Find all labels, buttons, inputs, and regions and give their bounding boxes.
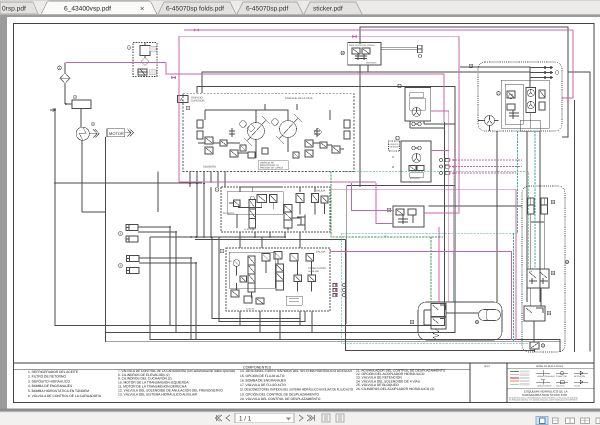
wire: magenta right drop — [562, 30, 573, 98]
svg-text:AUXILIAR: AUXILIAR — [308, 270, 319, 273]
wire: teal into coupler — [534, 131, 536, 269]
svg-text:5. BOMBA HIDROSTÁTICA EN TÁNDE: 5. BOMBA HIDROSTÁTICA EN TÁNDEM — [28, 389, 89, 393]
wire: brake valve down — [360, 65, 368, 187]
tab folds — [158, 2, 236, 14]
wire: pump feeder extensions — [158, 172, 211, 238]
wires down — [531, 214, 544, 269]
tandem hydrostatic pump 5 (dashed box) — [178, 94, 355, 172]
pump rotor left — [248, 123, 265, 140]
quick disconnects 14 (std aux) — [333, 284, 346, 297]
ride control block 19-21 (rounded, bottom middle) — [410, 302, 502, 340]
servo valve cluster right — [305, 140, 313, 157]
wire: mid verticals x527/x540 — [527, 131, 540, 302]
wire: loop under section B 2 — [219, 237, 305, 322]
servo valve cluster left — [205, 137, 213, 154]
green lines — [331, 171, 528, 302]
svg-text:LS: LS — [384, 235, 387, 238]
magenta arrows — [194, 29, 199, 32]
wire: bottom line y350.5 — [346, 240, 536, 351]
double line to connector — [381, 48, 418, 50]
svg-text:PRESIÓN DE CARGA: PRESIÓN DE CARGA — [260, 167, 283, 170]
svg-text:SALIDA: SALIDA — [316, 190, 325, 193]
gear pump P1 — [76, 127, 89, 140]
svg-text:6-45070sp folds.pdf: 6-45070sp folds.pdf — [166, 5, 224, 12]
wire: loop under section B — [212, 237, 300, 319]
wire: valve19 enclosure — [347, 186, 455, 325]
wire — [139, 263, 196, 340]
svg-text:×: × — [140, 4, 144, 13]
wire: valve19 to coupler — [429, 205, 522, 207]
reservoir tank — [72, 100, 91, 109]
return filter assembly 2 — [127, 43, 157, 77]
svg-text:CARGADORA SKID STEER 450T: CARGADORA SKID STEER 450T — [522, 393, 568, 397]
check valve 23 — [530, 342, 539, 349]
junction dots — [54, 103, 286, 264]
wire: magenta into ride control — [438, 227, 440, 304]
lift cylinders 8 — [119, 225, 138, 243]
wire: reservoir to pump — [80, 109, 82, 128]
wire: h y183 — [55, 182, 202, 184]
quick disconnects 18 (high flow) — [440, 159, 450, 175]
view mode icons — [536, 417, 548, 425]
svg-text:LÍNEAS CRUZADAS: LÍNEAS CRUZADAS — [537, 375, 555, 378]
svg-text:ENTRADA: ENTRADA — [223, 212, 235, 215]
wire: valve B drops to bottom lines — [240, 311, 312, 340]
svg-text:20. VÁLVULA DEL CONTROL DE DES: 20. VÁLVULA DEL CONTROL DE DESPLAZAMIENT… — [240, 397, 321, 401]
svg-text:SEÑALES REFLEJADAS: SEÑALES REFLEJADAS — [536, 364, 564, 368]
wire: left trunk vertical x55 — [55, 108, 445, 326]
svg-text:ORIFICIO: ORIFICIO — [390, 143, 399, 146]
solenoid valve 20 — [431, 304, 446, 317]
svg-text:15. OPCIÓN DE FLUJO ALTO: 15. OPCIÓN DE FLUJO ALTO — [240, 374, 285, 378]
svg-text:VÁLVULA: VÁLVULA — [556, 385, 565, 388]
wire: bottom line y341.8 — [106, 137, 561, 342]
svg-text:18. DESCONECTORES RÁPIDOS DEL: 18. DESCONECTORES RÁPIDOS DEL SISTEMA HI… — [240, 388, 353, 392]
svg-text:MOTOR: MOTOR — [109, 131, 124, 136]
tab sticker — [304, 2, 362, 14]
svg-text:4. BOMBA DE ENGRANAJES: 4. BOMBA DE ENGRANAJES — [28, 384, 73, 388]
wire: green LS rail — [331, 171, 443, 237]
pump servo extra symbols — [240, 104, 322, 158]
svg-text:14. DESCONECTORES RÁPIDOS DEL: 14. DESCONECTORES RÁPIDOS DEL SISTEMA HI… — [240, 369, 353, 373]
svg-text:INFERIOR: INFERIOR — [390, 146, 400, 149]
wire: green rail to coupler — [344, 171, 528, 269]
svg-text:CONECTOR: CONECTOR — [556, 375, 567, 378]
active tab 6_43400vsp.pdf — [41, 1, 157, 15]
wire: magenta x179 drop — [178, 36, 180, 182]
wire: magenta hf pair down — [431, 111, 449, 302]
wire: valve A drops — [240, 232, 300, 248]
svg-text:ANULACIÓN DEL FRENO: ANULACIÓN DEL FRENO — [349, 44, 375, 47]
wire: magenta top rail — [184, 29, 573, 31]
wire: h y212 — [82, 211, 106, 213]
color samples — [510, 371, 519, 373]
svg-text:26. CILINDROS DEL ACOPLADOR HI: 26. CILINDROS DEL ACOPLADOR HIDRÁULICO (… — [356, 387, 434, 391]
wire: magenta valve19 feeds — [352, 183, 394, 211]
tab 0rsp.pdf partial — [0, 2, 38, 14]
coupler cylinders 26 — [528, 198, 535, 214]
svg-text:19. OPCIÓN DEL CONTROL DE DESP: 19. OPCIÓN DEL CONTROL DE DESPLAZAMIENTO — [240, 392, 319, 396]
wire: magenta mid rail y36.4 — [179, 35, 459, 37]
wire: right return v574.5 — [574, 100, 576, 352]
svg-text:RETENCIÓN: RETENCIÓN — [574, 375, 586, 378]
svg-text:13. VÁLVULA DEL SISTEMA HIDRÁU: 13. VÁLVULA DEL SISTEMA HIDRÁULICO AUXIL… — [118, 393, 198, 397]
wire: junction row under valve A — [150, 236, 285, 238]
quick connector — [418, 45, 423, 48]
svg-text:1. REFRIGERADOR DEL ACEITE: 1. REFRIGERADOR DEL ACEITE — [28, 370, 79, 374]
svg-text:17. VÁLVULA DE FLUJO ALTO: 17. VÁLVULA DE FLUJO ALTO — [240, 383, 286, 387]
wire: magenta right pair — [515, 189, 517, 340]
filter bubble — [58, 66, 62, 70]
high-flow pump block 15/16 (top right) — [460, 62, 562, 131]
svg-text:ENTRADA: ENTRADA — [410, 177, 420, 180]
connector rows — [543, 68, 553, 78]
svg-text:LIS: LIS — [228, 260, 232, 263]
svg-text:sticker.pdf: sticker.pdf — [313, 5, 343, 12]
lockout valve 25 — [524, 306, 545, 321]
bucket cylinders 9 — [119, 256, 139, 274]
wire: magenta y182 rail — [179, 181, 376, 183]
wire: magenta to y74 rail — [166, 63, 444, 123]
svg-text:A1 B1 A2 B2: A1 B1 A2 B2 — [244, 228, 256, 231]
aux hydraulic valve 13 — [398, 84, 455, 128]
motor M1 — [107, 129, 125, 137]
inner connecting lines — [198, 110, 344, 158]
wire: far-right return line — [568, 72, 590, 352]
wire: magenta salida A rail — [331, 188, 516, 190]
tab 6-45070sp — [237, 2, 303, 14]
svg-text:EN POSICIÓN NEUTRAL Y EL MOTOR: EN POSICIÓN NEUTRAL Y EL MOTOR APAGADO. … — [509, 399, 578, 402]
loader aux valve 7 (section B) — [220, 248, 330, 311]
svg-text:1 / 1: 1 / 1 — [239, 415, 252, 422]
teal lines — [339, 131, 535, 343]
wire: left trunk vertical x150 — [150, 237, 560, 352]
wire: reservoir branch x81 — [81, 140, 83, 212]
wire: magenta hf disconnect stubs — [449, 160, 522, 173]
svg-text:ADMISIÓN: ADMISIÓN — [203, 165, 216, 169]
svg-text:A3 B3 A4: A3 B3 A4 — [246, 308, 255, 311]
wire: magenta salida to right — [330, 252, 512, 341]
wire: teal from hf block — [341, 131, 531, 343]
svg-text:SALIDA: SALIDA — [316, 251, 325, 254]
svg-text:DRENAJE DE LA CAJA: DRENAJE DE LA CAJA — [285, 97, 313, 100]
wire: hf pump drain — [496, 131, 498, 302]
svg-text:FLUJO: FLUJO — [574, 385, 581, 388]
junction dots row — [189, 183, 212, 238]
high flow valve 17 — [389, 136, 432, 182]
svg-text:6. VÁLVULA DE CONTROL DE LA CA: 6. VÁLVULA DE CONTROL DE LA CARGADORA — [28, 394, 102, 398]
svg-text:ENTRADA: ENTRADA — [366, 62, 377, 65]
svg-text:3. DEPÓSITO HIDRÁULICO: 3. DEPÓSITO HIDRÁULICO — [28, 379, 70, 383]
loader control valve 6 (section A) — [215, 187, 330, 232]
brake override solenoid valve 12 — [341, 42, 422, 65]
symbol entries — [536, 370, 550, 385]
svg-text:16. BOMBA DE ENGRANAJES: 16. BOMBA DE ENGRANAJES — [240, 378, 287, 382]
symbol legend box — [507, 364, 594, 401]
wire: v453.3 — [452, 186, 454, 303]
wire: left inlet tick — [50, 108, 56, 112]
svg-text:6_43400vsp.pdf: 6_43400vsp.pdf — [64, 5, 111, 12]
wire: top black run to right block — [360, 27, 568, 137]
4-way solenoid valve 24 — [527, 269, 549, 288]
wire: big loop top y72 — [202, 72, 530, 93]
wire: lift cylinder lines — [138, 227, 170, 326]
svg-text:6-45070sp.pdf: 6-45070sp.pdf — [246, 5, 288, 12]
filter F1 — [60, 73, 70, 84]
wire: junction row 2 — [195, 239, 346, 241]
motor shaft symbol — [125, 129, 134, 138]
wire — [138, 232, 176, 333]
wire: left trunk vertical x106 — [106, 87, 456, 333]
wire: bucket cylinder lines — [139, 258, 191, 340]
svg-text:NOTA: NOTA — [484, 365, 490, 368]
travel control valve 19 — [387, 206, 424, 227]
pump shaft arrows — [89, 129, 99, 138]
wire: pump box feeders — [190, 172, 225, 188]
svg-text:LÍNEAS UNIDAS: LÍNEAS UNIDAS — [537, 385, 552, 388]
wire: magenta filter line — [66, 62, 166, 64]
spring — [433, 329, 439, 340]
svg-text:SUPERIOR: SUPERIOR — [191, 99, 205, 102]
wire: filter to reservoir — [65, 63, 72, 105]
svg-text:0rsp.pdf: 0rsp.pdf — [2, 5, 26, 12]
svg-text:A: A — [180, 97, 183, 102]
wire: magenta drop x459 to valve 19 — [424, 36, 459, 213]
hydraulic coupler block 22-26 (right tall) — [522, 186, 569, 352]
accumulator 21 — [479, 310, 501, 321]
magenta top loop — [66, 29, 573, 341]
spool symbols — [229, 200, 240, 207]
pump rotor right — [280, 121, 297, 138]
svg-text:2. FILTRO DE RETORNO: 2. FILTRO DE RETORNO — [28, 375, 66, 379]
